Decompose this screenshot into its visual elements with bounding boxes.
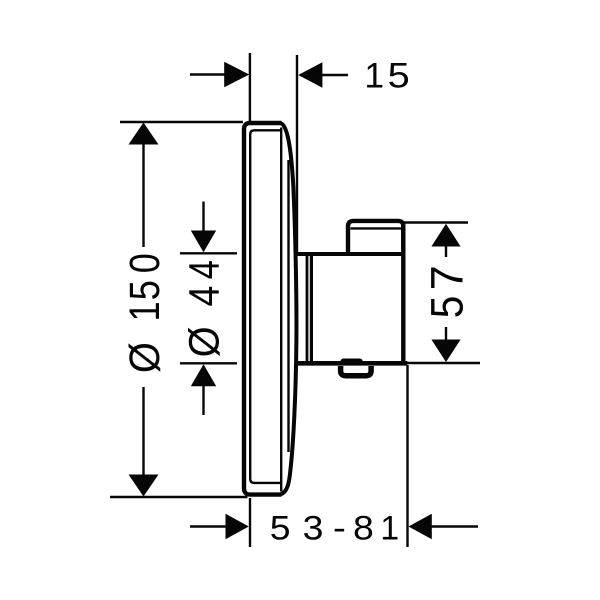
dimension 53-81: left extension line xyxy=(249,498,251,547)
svg-text:4: 4 xyxy=(180,286,228,307)
svg-text:1: 1 xyxy=(121,301,169,321)
svg-text:-: - xyxy=(333,509,346,547)
svg-text:Ø: Ø xyxy=(179,326,228,357)
dimension 57: bottom extension line xyxy=(405,362,480,364)
svg-text:7: 7 xyxy=(421,265,472,290)
svg-text:8: 8 xyxy=(353,509,374,547)
dimension 53-81: right extension line xyxy=(406,365,408,547)
svg-text:3: 3 xyxy=(303,509,324,547)
svg-text:1: 1 xyxy=(364,56,384,96)
svg-text:1: 1 xyxy=(380,510,399,548)
dimension D150: top extension line xyxy=(120,121,243,123)
plate back chord line xyxy=(280,128,282,492)
valve body bottom edge xyxy=(296,361,407,366)
plate back curved silhouette xyxy=(281,123,297,494)
svg-text:4: 4 xyxy=(181,260,228,279)
dimension 15: right extension line xyxy=(296,55,298,253)
svg-text:5: 5 xyxy=(388,55,410,95)
dimension D44: label xyxy=(179,260,228,357)
valve body right edge xyxy=(401,224,405,364)
dimension 15: left arrow xyxy=(190,62,249,87)
dimension 15: label xyxy=(364,55,409,95)
svg-text:0: 0 xyxy=(121,253,169,273)
svg-text:5: 5 xyxy=(121,280,169,300)
valve body top edge xyxy=(298,252,406,256)
cartridge top box xyxy=(348,221,403,253)
dimension 15: left extension line xyxy=(249,53,251,124)
dimension 53-81: label xyxy=(270,509,399,548)
dimension D44: top tick xyxy=(180,252,237,254)
bottom tab bump xyxy=(341,359,363,366)
bottom tab xyxy=(341,366,372,376)
svg-text:5: 5 xyxy=(422,296,472,319)
dimension D150: dimension line with arrows xyxy=(129,123,159,497)
dimension D150: bottom extension line xyxy=(110,496,248,498)
dimension 57: top extension line xyxy=(404,221,468,223)
dimension 53-81: right arrow xyxy=(409,514,479,539)
dimension D44: top arrow xyxy=(191,202,216,253)
svg-text:Ø: Ø xyxy=(120,342,169,373)
sleeve inner line xyxy=(287,160,289,452)
valve body front (left) double edge xyxy=(307,254,311,362)
plate front rim inner line xyxy=(250,130,281,483)
dimension 15: right arrow xyxy=(298,62,348,87)
dimension 57: dimension line with arrows xyxy=(431,224,460,362)
escutcheon plate outline (side view) xyxy=(244,123,282,495)
dimension D150: label xyxy=(120,253,169,373)
dimension D44: bottom tick xyxy=(180,362,237,364)
dimension 57: label xyxy=(421,265,473,318)
dimension 53-81: left arrow xyxy=(190,514,249,539)
svg-text:5: 5 xyxy=(270,509,291,547)
dimension D44: bottom arrow xyxy=(191,364,216,415)
top box inner line xyxy=(351,227,402,229)
